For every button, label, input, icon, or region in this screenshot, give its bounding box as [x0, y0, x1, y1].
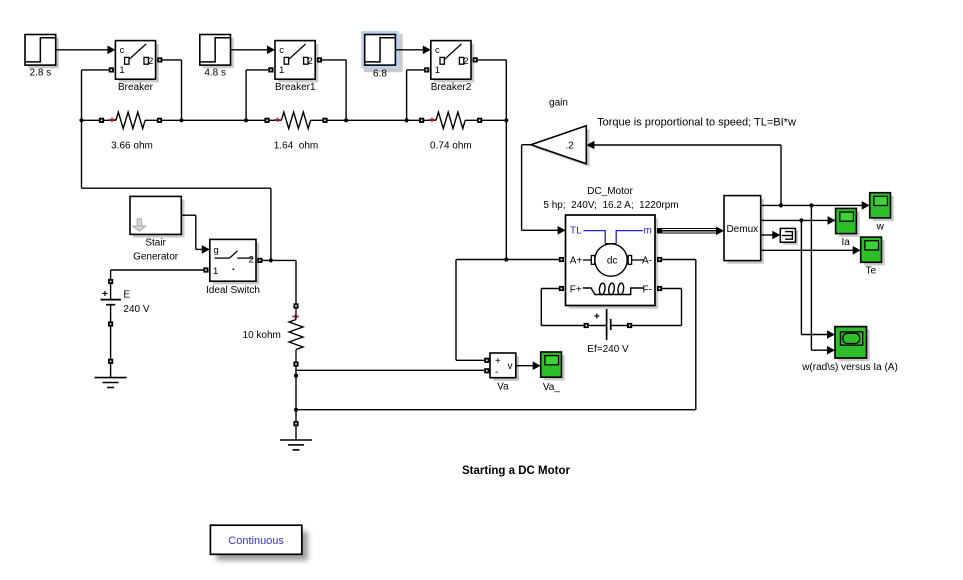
wire motor A- down and left	[296, 260, 696, 410]
breaker Breaker2	[431, 41, 474, 93]
wire Breaker1 out down to chain	[322, 60, 346, 120]
svg-text:m: m	[643, 226, 651, 237]
svg-text:c: c	[279, 45, 284, 56]
svg-text:.2: .2	[565, 141, 574, 152]
svg-text:Ia: Ia	[842, 237, 851, 248]
node A+ junction	[504, 257, 508, 261]
svg-text:+: +	[594, 311, 600, 323]
node A- return junction	[294, 408, 298, 412]
wire demux out3 to terminator	[761, 231, 781, 240]
wire motor F+ to battery Ef	[541, 289, 583, 326]
scope Va_	[541, 352, 565, 393]
wire Va- from shunt node	[296, 369, 484, 371]
port Ideal Switch in 1	[203, 267, 208, 272]
wire Breaker port1 to node	[82, 70, 109, 120]
scope Ia	[836, 208, 860, 247]
svg-text:Stair: Stair	[145, 238, 166, 249]
wire Breaker1 port1 to node	[246, 70, 268, 120]
svg-text:6.8: 6.8	[373, 69, 387, 80]
annotation torque text	[597, 117, 796, 129]
wire Breaker out down to chain	[162, 60, 181, 120]
wire chain down to A+ node	[505, 120, 507, 259]
port DC_Motor A+	[559, 257, 564, 262]
svg-text:Generator: Generator	[133, 252, 179, 263]
svg-text:240 V: 240 V	[123, 304, 149, 315]
node out1 xy junction	[809, 203, 813, 207]
svg-text:g: g	[214, 245, 219, 256]
port DC_Motor F+	[559, 286, 564, 291]
svg-text:Te: Te	[866, 266, 877, 277]
xy graph w versus Ia	[801, 327, 898, 373]
node switch-out junction	[269, 258, 273, 262]
wire battery E minus to ground	[110, 327, 112, 359]
battery Ef=240 V	[584, 309, 633, 355]
svg-text:10 kohm: 10 kohm	[243, 330, 281, 341]
step source 2.8 s	[25, 35, 59, 79]
ground under 10 kohm	[280, 421, 312, 450]
wire A+ node down to Va+	[456, 260, 484, 361]
svg-text:Breaker2: Breaker2	[431, 82, 472, 93]
svg-text:w(rad\s) versus Ia (A): w(rad\s) versus Ia (A)	[801, 362, 898, 373]
node Va- tap	[294, 374, 298, 378]
powergui Continuous	[210, 525, 307, 560]
gain .2	[531, 98, 590, 167]
svg-text:Va: Va	[497, 382, 509, 393]
title Starting a DC Motor	[462, 465, 570, 477]
svg-text:TL: TL	[570, 226, 582, 237]
step source 4.8 s	[200, 35, 234, 79]
wire Ideal Switch out to node	[263, 260, 297, 303]
wire 10 kohm bottom to ground	[295, 367, 297, 421]
svg-text:1: 1	[435, 65, 440, 76]
port DC_Motor F-	[657, 286, 662, 291]
wire step2 to Breaker1 c	[231, 46, 276, 55]
demux Demux	[724, 196, 764, 264]
port Breaker2 out 2	[473, 57, 478, 62]
svg-text:gain: gain	[549, 98, 568, 109]
port Va minus	[484, 368, 489, 373]
svg-text:Breaker1: Breaker1	[275, 82, 316, 93]
step source 6.8 (selected)	[361, 31, 403, 80]
battery E 240 V	[101, 279, 150, 327]
svg-text:F-: F-	[643, 284, 652, 295]
port Breaker2 in 1	[424, 67, 429, 72]
wire Breaker2 port1 to node	[407, 70, 425, 120]
svg-text:Ideal Switch: Ideal Switch	[206, 285, 260, 296]
port Va plus	[484, 358, 489, 363]
resistor 1.64 ohm	[264, 112, 327, 152]
svg-text:1: 1	[119, 65, 124, 76]
wire Breaker2 out down to chain	[478, 60, 507, 120]
wire w branch to XY graph bottom	[811, 205, 835, 354]
port Breaker out 2	[157, 57, 162, 62]
svg-text:Va_: Va_	[543, 382, 560, 393]
wire step3 to Breaker2 c	[395, 46, 430, 55]
voltmeter Va	[490, 353, 519, 393]
machine DC_Motor	[543, 186, 678, 309]
svg-text:2.8 s: 2.8 s	[30, 67, 52, 78]
svg-text:dc: dc	[607, 255, 618, 266]
block terminator icon	[780, 228, 798, 244]
wire node up-left to chain start	[82, 120, 271, 260]
wire Va out to scope Va_	[516, 361, 541, 370]
wire demux out1 to scope w	[761, 201, 870, 210]
scope w	[870, 193, 894, 233]
svg-text:1: 1	[279, 65, 284, 76]
port Breaker in 1	[109, 67, 114, 72]
svg-text:2: 2	[148, 56, 153, 67]
node out1 feedback junction	[779, 203, 783, 207]
switch Ideal Switch	[206, 239, 260, 295]
port Ideal Switch out 2	[257, 258, 262, 263]
breaker Breaker1	[275, 41, 318, 93]
svg-text:DC_Motor: DC_Motor	[587, 186, 633, 197]
svg-text:Ef=240 V: Ef=240 V	[587, 344, 629, 355]
svg-text:1.64 ohm: 1.64 ohm	[274, 141, 318, 152]
port Breaker1 out 2	[317, 57, 322, 62]
block Stair Generator	[130, 196, 185, 262]
svg-text:0.74 ohm: 0.74 ohm	[430, 141, 472, 152]
svg-text:Torque is proportional to spee: Torque is proportional to speed; TL=BI*w	[597, 117, 796, 129]
wire step1 to Breaker c	[56, 46, 116, 55]
port DC_Motor m	[657, 228, 662, 233]
resistor 0.74 ohm	[419, 112, 482, 152]
wire Ia branch to XY graph top	[801, 220, 835, 338]
svg-text:+: +	[102, 288, 108, 300]
svg-text:4.8 s: 4.8 s	[204, 67, 226, 78]
breaker Breaker	[115, 41, 158, 93]
wire feedback demux to gain	[586, 141, 781, 206]
resistor 10 kohm	[243, 303, 303, 366]
wire A+ node to motor	[456, 259, 559, 261]
svg-text:1: 1	[213, 266, 218, 277]
port DC_Motor A-	[657, 257, 662, 262]
wire battery E to Ideal Switch 1	[111, 270, 204, 279]
svg-text:E: E	[123, 290, 130, 301]
svg-text:-: -	[495, 367, 498, 378]
svg-text:Demux: Demux	[726, 224, 758, 235]
wire demux out4 to scope Te	[761, 246, 861, 255]
svg-text:c: c	[120, 45, 125, 56]
svg-text:F+: F+	[570, 284, 582, 295]
ground under battery E	[95, 359, 127, 388]
svg-text:v: v	[508, 361, 513, 372]
svg-text:Continuous: Continuous	[228, 535, 284, 547]
wire motor m to Demux (vector)	[658, 227, 724, 236]
wire Stair Generator to Ideal Switch g	[181, 215, 210, 254]
node chain junctions	[79, 118, 508, 122]
svg-text:2: 2	[308, 56, 313, 67]
svg-text:c: c	[435, 45, 440, 56]
svg-text:Starting a DC Motor: Starting a DC Motor	[462, 465, 570, 477]
port Breaker1 in 1	[268, 67, 273, 72]
wire gain out to motor TL	[522, 145, 566, 235]
svg-text:2: 2	[249, 255, 254, 266]
wire motor F- to battery Ef	[632, 289, 681, 326]
svg-text:w: w	[876, 221, 885, 232]
svg-text:A-: A-	[642, 255, 652, 266]
svg-text:Breaker: Breaker	[118, 82, 154, 93]
resistor 3.66 ohm	[99, 112, 162, 152]
scope Te	[861, 237, 885, 277]
svg-text:2: 2	[463, 56, 468, 67]
svg-text:5 hp; 240V; 16.2 A; 1220rpm: 5 hp; 240V; 16.2 A; 1220rpm	[543, 200, 678, 211]
wire demux out2 to scope Ia	[761, 216, 836, 225]
node out2 xy junction	[799, 218, 803, 222]
svg-text:3.66 ohm: 3.66 ohm	[111, 141, 153, 152]
svg-text:A+: A+	[570, 255, 583, 266]
wire resistor chain	[82, 119, 507, 121]
svg-text:+: +	[495, 356, 501, 367]
